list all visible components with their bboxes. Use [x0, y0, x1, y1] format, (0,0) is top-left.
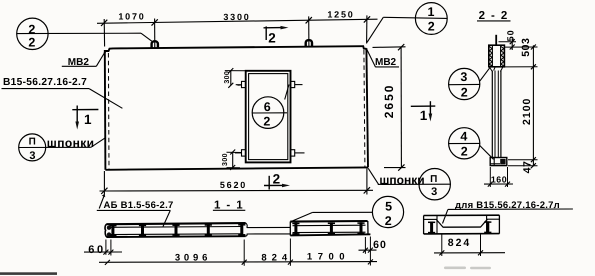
svg-text:503: 503 [520, 38, 532, 57]
svg-text:2: 2 [428, 20, 435, 34]
svg-text:П: П [29, 137, 36, 148]
svg-text:824: 824 [261, 252, 292, 263]
svg-text:4: 4 [460, 130, 467, 144]
svg-text:50: 50 [505, 29, 515, 41]
svg-text:1: 1 [428, 5, 435, 19]
svg-text:шпонки: шпонки [379, 173, 424, 187]
svg-text:шпонки: шпонки [47, 136, 95, 150]
svg-text:3300: 3300 [223, 12, 250, 22]
svg-text:6: 6 [264, 100, 271, 114]
svg-text:2650: 2650 [382, 84, 396, 119]
svg-text:47: 47 [522, 161, 534, 174]
svg-text:2: 2 [268, 31, 276, 46]
svg-text:МВ2: МВ2 [68, 57, 90, 68]
svg-text:2: 2 [28, 35, 35, 49]
svg-text:300: 300 [222, 153, 229, 166]
svg-text:1: 1 [84, 112, 92, 127]
svg-text:5: 5 [385, 200, 392, 214]
svg-text:2-2: 2-2 [479, 10, 514, 22]
svg-text:5620: 5620 [220, 180, 247, 190]
svg-text:2: 2 [461, 145, 468, 159]
svg-text:2: 2 [263, 115, 270, 129]
svg-text:1700: 1700 [307, 251, 350, 262]
svg-text:В15-56.27.16-2.7: В15-56.27.16-2.7 [3, 77, 87, 88]
svg-text:3: 3 [460, 70, 467, 84]
svg-text:824: 824 [448, 237, 472, 249]
svg-text:1-1: 1-1 [214, 199, 249, 211]
svg-text:для В15.56.27.16-2.7л: для В15.56.27.16-2.7л [455, 200, 560, 211]
svg-text:160: 160 [491, 174, 507, 184]
svg-text:2100: 2100 [521, 98, 533, 125]
svg-text:1250: 1250 [327, 10, 354, 20]
svg-text:2: 2 [273, 171, 281, 186]
svg-text:2: 2 [28, 22, 35, 36]
svg-text:3: 3 [29, 150, 35, 162]
svg-text:60: 60 [88, 244, 105, 256]
svg-text:60: 60 [373, 239, 387, 251]
svg-text:300: 300 [224, 71, 231, 84]
svg-text:2: 2 [385, 214, 392, 228]
svg-text:1: 1 [420, 108, 428, 123]
svg-text:МВ2: МВ2 [375, 57, 397, 68]
svg-text:3096: 3096 [175, 252, 211, 263]
svg-text:3: 3 [431, 186, 437, 198]
svg-text:2: 2 [461, 85, 468, 99]
svg-text:П: П [430, 174, 437, 185]
svg-text:1070: 1070 [118, 11, 145, 21]
svg-text:АБ В1.5-56-2.7: АБ В1.5-56-2.7 [104, 200, 174, 211]
